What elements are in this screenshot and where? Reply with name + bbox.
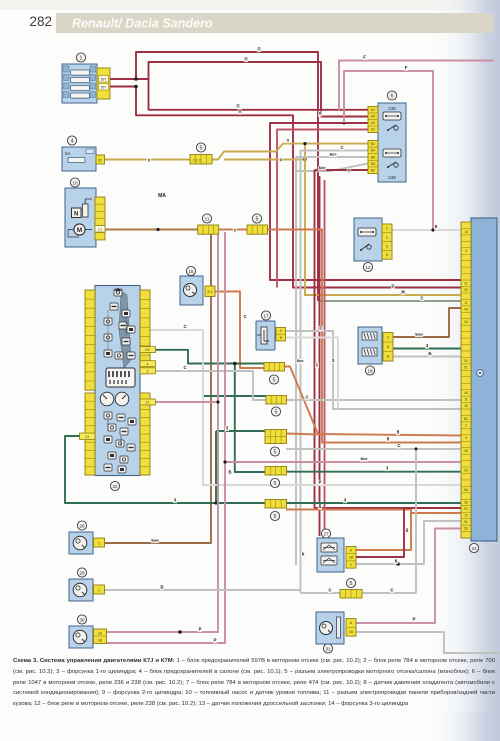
fuse block 1 (597B engine bay)	[62, 53, 97, 103]
connector strip of fuel pump 10	[95, 197, 105, 240]
wire: green from 5g to ECU pin 2	[286, 471, 461, 473]
connector of injector 30	[94, 629, 107, 644]
svg-text:Бел: Бел	[297, 359, 305, 363]
svg-text:12: 12	[464, 514, 468, 518]
wire: green vertical x216	[215, 431, 217, 503]
svg-text:26: 26	[464, 449, 468, 453]
wire: gray from sensor 18 to ECU	[393, 356, 461, 358]
sensor 31 (throttle/speed)	[316, 612, 344, 653]
svg-text:53: 53	[464, 527, 468, 531]
idle control unit 27	[317, 529, 344, 572]
svg-text:П: П	[238, 109, 241, 114]
svg-text:18: 18	[367, 368, 373, 373]
svg-text:2: 2	[386, 227, 388, 231]
wire: throttle sensor 17 gray second	[285, 338, 338, 410]
connector of unit 15	[205, 286, 215, 297]
svg-text:5: 5	[275, 409, 278, 415]
wire: pink P from sensor 31 up to ECU	[356, 529, 461, 624]
wire: net Bel diagonal to relay 6 pin B4	[296, 164, 368, 172]
indicator icons lower	[104, 412, 112, 419]
wire: brown from injector 26 up to fuel row	[104, 230, 211, 544]
svg-text:46: 46	[464, 391, 468, 395]
svg-text:Р: Р	[319, 480, 322, 485]
svg-text:Бел: Бел	[319, 166, 327, 170]
gauge dials	[100, 392, 114, 406]
svg-text:1: 1	[350, 563, 352, 567]
unit 15 (immobilizer/clock)	[180, 266, 203, 305]
pin strip A of relay block 6	[368, 107, 378, 133]
harness connector 5 (row h)	[265, 500, 287, 509]
wire: battery feed A from fuse block 1	[110, 78, 149, 80]
wire: yellow from fuse block 4 to connector 5	[104, 159, 190, 161]
svg-text:Б: Б	[228, 470, 231, 475]
wire: orange branch from 5h	[286, 510, 411, 514]
connector of sensor 17	[276, 328, 286, 341]
wire: net P long run to relay block 6 pin A1	[149, 79, 369, 110]
harness connector 5 (top)	[196, 143, 205, 152]
junction dot tan	[303, 142, 306, 145]
svg-text:13: 13	[85, 435, 89, 439]
svg-text:6: 6	[391, 93, 394, 99]
ECU 24 engine control unit	[471, 218, 497, 541]
svg-text:30: 30	[464, 288, 468, 292]
svg-text:П: П	[257, 47, 260, 52]
wire: yellow from connector 5 stepping up to relay 6 pin B1	[212, 144, 368, 160]
svg-text:Бож: Бож	[415, 333, 423, 337]
wire: connector 5 onward down to ECU fuel gauge pin	[268, 230, 462, 443]
wire: Bel pink from panel 22 to injector 30	[106, 232, 218, 632]
wire: orange from unit 27 pin1 to ECU pin 36	[356, 513, 461, 550]
svg-text:б: б	[319, 504, 322, 509]
svg-text:5: 5	[274, 449, 277, 455]
svg-text:1: 1	[98, 542, 100, 546]
svg-text:D2: D2	[145, 348, 150, 352]
wire: orange from 5d diagonal down to ECU pin 46	[284, 367, 461, 436]
svg-text:B2: B2	[464, 417, 468, 421]
svg-text:5: 5	[274, 481, 277, 487]
harness connector 5 (fuel row)	[252, 214, 261, 223]
harness connector 5 (row e)	[266, 396, 287, 405]
svg-text:К: К	[302, 552, 305, 557]
svg-text:21: 21	[146, 401, 150, 405]
svg-text:27: 27	[323, 531, 329, 536]
svg-text:51: 51	[464, 520, 468, 524]
svg-text:B2: B2	[371, 169, 375, 173]
svg-text:Бел: Бел	[330, 153, 338, 157]
svg-text:5A: 5A	[65, 151, 72, 156]
connector of fuse block 4	[96, 155, 105, 164]
wire: orange stub from 5f joining pin46 diagonal	[286, 434, 318, 435]
svg-text:5: 5	[350, 581, 353, 587]
connector of sensor 31	[346, 619, 356, 637]
svg-text:28: 28	[79, 570, 85, 575]
svg-text:1: 1	[98, 589, 100, 593]
caption text block	[13, 656, 495, 710]
wire: gray stub into 5e from right	[283, 399, 285, 401]
svg-text:МА: МА	[158, 193, 166, 199]
x junction mark	[147, 158, 151, 164]
svg-text:Ж: Ж	[400, 290, 405, 295]
svg-text:C: C	[315, 363, 318, 368]
decorative: bottom right page shade	[430, 712, 500, 741]
svg-text:F: F	[405, 65, 408, 70]
svg-text:П: П	[347, 168, 350, 173]
svg-text:282: 282	[30, 14, 53, 29]
svg-text:1: 1	[386, 236, 388, 240]
svg-text:П: П	[244, 57, 247, 62]
svg-text:C: C	[305, 395, 308, 400]
svg-text:31: 31	[325, 646, 331, 651]
wire: maroon vertical pair below relay 6	[319, 176, 321, 536]
connector of injector 26	[94, 538, 105, 547]
right pin strips of panel 22	[140, 290, 150, 374]
junction dot node A	[134, 77, 138, 81]
svg-text:51: 51	[464, 365, 468, 369]
wire: tan branch second row	[224, 159, 305, 161]
wire: brown from sensor 18 to ECU	[393, 308, 461, 337]
wire: net F mauve down right side to ECU pin 14	[344, 71, 461, 230]
instrument panel 22	[95, 286, 140, 491]
svg-text:Р: Р	[199, 627, 202, 632]
svg-text:A2: A2	[371, 128, 375, 132]
svg-text:238: 238	[388, 175, 396, 180]
svg-text:2 1 2: 2 1 2	[193, 159, 201, 163]
svg-text:26: 26	[79, 523, 85, 528]
svg-text:C: C	[328, 588, 331, 593]
svg-text:43: 43	[464, 307, 468, 311]
svg-text:16: 16	[464, 404, 468, 408]
svg-text:12: 12	[365, 265, 371, 270]
svg-text:B5: B5	[371, 155, 375, 159]
svg-text:36: 36	[464, 501, 468, 505]
svg-text:33: 33	[464, 468, 468, 472]
wire: net C gray vertical from 5c up to ECU pin 16	[362, 449, 461, 593]
svg-text:Б: Б	[428, 351, 431, 356]
svg-text:C: C	[183, 365, 186, 370]
svg-text:б: б	[406, 528, 409, 533]
connector of sensor 18	[383, 333, 393, 362]
wire: fuel pump 10 to connector 11	[105, 229, 198, 231]
svg-text:Р: Р	[214, 638, 217, 643]
injector 30	[69, 615, 93, 648]
svg-text:4: 4	[147, 362, 149, 366]
wire: net Bel gray to relay 6 pin B3	[296, 157, 368, 565]
harness connector 5 (row d)	[264, 363, 285, 372]
wire: red feed to relay 6 pin A4	[277, 130, 368, 288]
relay block 6 (1047, relays 236/238)	[378, 91, 406, 182]
wire: net P red to relay 6 pin B5	[315, 169, 369, 171]
svg-text:1B: 1B	[349, 630, 354, 634]
svg-text:B4: B4	[371, 149, 375, 153]
harness connector 5 (row g)	[265, 467, 287, 476]
junction dot fuel line	[156, 228, 159, 231]
svg-text:30: 30	[79, 617, 85, 622]
junction dot brown	[210, 542, 212, 544]
wire: net P lower run via x293 to ECU pin D	[136, 87, 461, 288]
wire: dark red vertical x314 down to ECU P2	[315, 170, 405, 508]
pin strip B of relay block 6	[368, 141, 378, 174]
wire: green from panel 22 right pin via 5d	[156, 350, 265, 364]
warning lamp icons	[114, 289, 122, 296]
svg-text:1: 1	[80, 55, 83, 61]
svg-text:5: 5	[256, 216, 259, 222]
svg-text:Р: Р	[413, 617, 416, 622]
svg-text:4: 4	[71, 138, 74, 144]
injector 28	[69, 568, 93, 601]
wire: dark red from unit 27 pin2 to ECU P2	[356, 508, 461, 557]
svg-text:Бож: Бож	[151, 539, 159, 543]
svg-text:B1: B1	[371, 142, 375, 146]
svg-text:К: К	[395, 559, 398, 564]
svg-text:Renault/ Dacia Sandero: Renault/ Dacia Sandero	[72, 16, 213, 30]
wire: throttle sensor 17 gray to ECU pin 51	[285, 331, 461, 409]
svg-text:5: 5	[200, 145, 203, 151]
svg-text:D: D	[391, 284, 394, 289]
svg-text:5: 5	[273, 377, 276, 383]
pin strip of relay block 12	[382, 224, 392, 259]
svg-text:C1: C1	[98, 228, 102, 232]
wire: net C from panel 22 to ECU pin 54	[156, 371, 462, 400]
svg-text:11: 11	[205, 216, 210, 221]
svg-text:31: 31	[464, 281, 468, 285]
svg-text:5: 5	[386, 253, 388, 257]
svg-text:597: 597	[101, 86, 107, 90]
svg-text:3: 3	[465, 249, 467, 253]
wire: net C from panel 22 upper to ECU white P	[150, 330, 461, 485]
svg-text:C: C	[319, 326, 322, 331]
wire: relay 12 pin K to ECU	[392, 229, 461, 231]
sensor unit 18	[358, 327, 382, 375]
wire: green into connector 5f	[216, 430, 265, 432]
svg-text:4: 4	[465, 436, 467, 440]
svg-text:C: C	[243, 314, 246, 319]
svg-text:N: N	[74, 212, 78, 218]
svg-text:24: 24	[471, 546, 477, 551]
wire: net P second run to relay block 6 pin A2	[149, 62, 369, 117]
svg-text:2: 2	[147, 369, 149, 373]
svg-text:32: 32	[98, 159, 102, 163]
wire: net C gray to relay 6 pin B2	[301, 151, 369, 594]
harness connector 5 (row f, double)	[265, 430, 287, 444]
wire: connector 11 to connector 5	[219, 229, 247, 231]
svg-text:P2: P2	[464, 507, 468, 511]
svg-text:Бел: Бел	[361, 457, 369, 461]
throttle sensor 17	[256, 311, 275, 350]
svg-text:14: 14	[464, 230, 468, 234]
svg-text:б: б	[397, 430, 400, 435]
svg-text:236: 236	[388, 106, 396, 111]
relay block 12 (relay 238)	[354, 218, 382, 272]
harness connector 5 (row c bottom)	[340, 590, 362, 599]
svg-text:Б: Б	[160, 585, 163, 590]
svg-text:б: б	[387, 437, 390, 442]
svg-text:5 1: 5 1	[208, 290, 213, 294]
connector of unit 27	[346, 547, 356, 569]
harness connector 11	[202, 214, 211, 223]
fuse block 4 (cabin)	[62, 136, 96, 171]
svg-text:597: 597	[101, 78, 107, 82]
svg-text:5: 5	[274, 514, 277, 520]
wire: battery feed B from fuse block 1	[110, 86, 136, 88]
wire: green into connector 5e	[203, 395, 267, 397]
svg-text:11: 11	[464, 398, 468, 402]
wire: net P upper run to ECU column	[136, 52, 318, 301]
svg-text:П: П	[236, 104, 239, 109]
fuel pump unit 10	[65, 178, 96, 247]
wire: Bel pink injector 30 second to ECU B2	[106, 232, 225, 643]
wire: clock 15 orange to connector 5d	[215, 292, 264, 369]
wire: green from sensor 18 to ECU	[393, 348, 461, 350]
junction dot mauve/K	[431, 228, 434, 231]
wire: net C gray through 5f region	[286, 448, 416, 450]
svg-text:15: 15	[188, 269, 194, 274]
svg-text:П: П	[318, 111, 321, 116]
svg-text:F: F	[363, 55, 366, 60]
svg-text:1B: 1B	[349, 556, 354, 560]
svg-text:C: C	[420, 296, 423, 301]
junction dot on A3 feed	[343, 122, 346, 125]
svg-text:2: 2	[465, 423, 467, 427]
svg-text:B3: B3	[371, 162, 375, 166]
svg-text:22: 22	[112, 484, 118, 489]
svg-text:A3: A3	[371, 121, 375, 125]
wire name labels	[257, 47, 261, 52]
wire: tan vertical to ECU Zh pin	[305, 144, 461, 295]
svg-text:M: M	[77, 227, 82, 234]
svg-text:10: 10	[72, 180, 78, 185]
svg-text:54: 54	[464, 359, 468, 363]
svg-text:C: C	[390, 588, 393, 593]
wire: gray into connector 5c left	[301, 592, 341, 594]
wire: gray from unit 27 pin3 to ECU pin 12	[356, 521, 461, 564]
connector of injector 28	[94, 585, 105, 594]
svg-text:A4: A4	[371, 115, 375, 119]
injector 26	[69, 521, 93, 554]
wire: net F mauve to right edge	[339, 61, 494, 111]
left pin strips of panel 22	[85, 290, 95, 390]
wire: gray from injector 28 joins x300 net	[104, 589, 301, 591]
wire: long green from panel 22 to ECU	[65, 436, 461, 503]
svg-text:3: 3	[386, 244, 388, 248]
svg-text:C: C	[397, 443, 400, 448]
svg-text:К: К	[435, 224, 438, 229]
wire: red feed to relay 6 pin A3	[270, 123, 461, 280]
connector of fuse block 1	[97, 68, 110, 99]
svg-text:C: C	[183, 324, 186, 329]
header bar Renault/Dacia Sandero	[56, 13, 494, 33]
svg-text:A1: A1	[371, 108, 375, 112]
wire: green branch down x234 to connector 5g	[235, 364, 265, 473]
svg-text:C: C	[340, 145, 343, 150]
ECU pin strip	[461, 222, 471, 538]
junction dot node B	[134, 85, 138, 89]
speedometer needle	[119, 291, 131, 368]
wire: gray from sensor 31 off right edge	[356, 632, 500, 653]
LCD display	[106, 368, 135, 387]
svg-text:17: 17	[263, 313, 269, 318]
